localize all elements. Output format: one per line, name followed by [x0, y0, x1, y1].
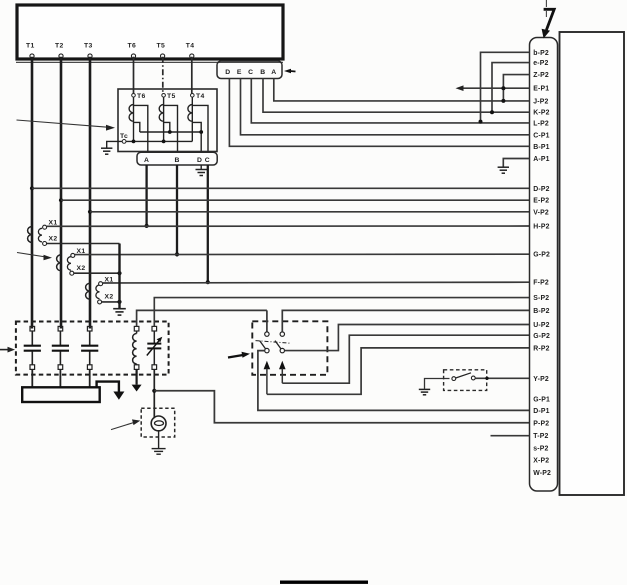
wire PT1 X2 to ground bus: [47, 243, 120, 245]
PT2 terminal X1: [71, 248, 86, 258]
wire K1b lower contact to U-P2 row: [285, 325, 530, 351]
svg-text:D-P2: D-P2: [533, 186, 550, 193]
ground at PT bus: [113, 309, 126, 315]
potential transformer PT3 secondary: [96, 285, 100, 299]
capacitor C2: [52, 326, 69, 387]
potential transformer PT2 primary: [57, 255, 61, 271]
svg-text:T5: T5: [167, 93, 176, 100]
svg-text:A: A: [271, 69, 276, 76]
wire L1 bottom to chassis arrow: [136, 369, 138, 384]
wire K1b actuator to G-P2 row: [282, 335, 529, 383]
svg-text:U-P2: U-P2: [533, 322, 550, 329]
annotation arrow at block A: [284, 69, 296, 74]
junction lamp tap: [152, 389, 156, 393]
svg-text:X2: X2: [77, 265, 86, 272]
svg-text:b-P2: b-P2: [533, 50, 549, 57]
svg-text:T6: T6: [137, 93, 146, 100]
relay actuator arrow K1a: [264, 361, 271, 395]
wire T1 main vertical: [31, 57, 34, 329]
annotation leader to PT2: [17, 253, 52, 261]
svg-text:T3: T3: [84, 43, 93, 50]
wire E terminal to C-P1 row: [241, 79, 530, 135]
wire stub T-P2: [491, 435, 530, 437]
svg-text:E: E: [237, 69, 242, 76]
potential transformer PT3 primary: [86, 283, 90, 299]
wire PT3 X2 to ground bus: [102, 300, 122, 304]
wire lamp to ground: [158, 431, 160, 449]
svg-text:T4: T4: [186, 43, 195, 50]
wire A-P1 to ground: [503, 159, 529, 167]
ground below lamp: [152, 449, 166, 455]
potential transformer PT2 secondary: [67, 257, 71, 271]
current transformer CT5: [159, 93, 177, 165]
terminal T6: [128, 43, 137, 59]
wire C terminal to L-P2 row: [251, 79, 529, 123]
svg-text:C: C: [205, 157, 210, 164]
capacitor ground bus bar: [22, 387, 100, 402]
terminal T3: [84, 43, 93, 59]
lamp dashed enclosure: [141, 408, 175, 437]
svg-text:X2: X2: [105, 294, 114, 301]
wire row to V-P2: [90, 211, 530, 213]
inductor L1: [133, 326, 139, 369]
PT1 terminal X2: [43, 236, 58, 246]
relay actuator arrow K1b: [279, 361, 286, 383]
annotation arrow at filter box: [0, 347, 15, 353]
svg-text:A-P1: A-P1: [533, 156, 550, 163]
svg-text:S-P2: S-P2: [533, 295, 549, 302]
terminal T1: [26, 43, 35, 59]
relay blade K1b: [275, 341, 281, 349]
terminal Tc: [120, 133, 128, 144]
terminal T5: [157, 43, 166, 59]
potential transformer PT1 secondary: [38, 228, 42, 242]
wire C4 top to S-P2 row: [154, 298, 529, 327]
ground below pin D: [196, 165, 208, 176]
svg-text:B: B: [175, 157, 180, 164]
wire b-P2 jumper from L-P2 row: [479, 52, 530, 123]
svg-text:B: B: [260, 69, 265, 76]
capacitor C1: [24, 326, 41, 387]
filter dashed enclosure: [16, 322, 169, 375]
svg-text:H-P2: H-P2: [533, 224, 550, 231]
junction T1 to D-P2 row: [30, 186, 34, 190]
wire row to E-P2: [61, 199, 530, 201]
wire T5 to CT5 (dash-dot): [162, 57, 164, 94]
CT assembly box: [118, 89, 217, 152]
wire T2 main vertical: [60, 57, 63, 329]
svg-text:E-P1: E-P1: [533, 86, 549, 93]
svg-text:s-P2: s-P2: [533, 446, 548, 453]
svg-text:J-P2: J-P2: [533, 98, 548, 105]
relay dashed enclosure K1: [252, 321, 327, 375]
wire lamp tap to P-P2 row: [154, 391, 529, 423]
PT ground bus vertical: [118, 244, 120, 309]
CT primary common bus Tc: [126, 140, 193, 144]
annotation leader to lamp: [111, 419, 140, 429]
svg-text:e-P2: e-P2: [533, 60, 548, 67]
svg-text:G-P1: G-P1: [533, 396, 550, 403]
chassis arrow below L1: [132, 385, 142, 392]
svg-text:B-P2: B-P2: [533, 308, 550, 315]
svg-text:B-P1: B-P1: [533, 144, 550, 151]
aux switch dashed enclosure: [444, 370, 487, 391]
svg-text:X-P2: X-P2: [533, 458, 549, 465]
svg-text:Tc: Tc: [120, 133, 128, 140]
chassis arrow at bus bar: [113, 392, 124, 400]
wire CT output A: [145, 165, 149, 228]
relay contact K1b upper: [280, 332, 284, 336]
wire e-P2 jumper from K-P2 row: [490, 63, 530, 115]
svg-text:K-P2: K-P2: [533, 110, 550, 117]
wire C4 bottom to lamp: [153, 369, 155, 418]
current transformer CT4: [188, 93, 208, 165]
svg-text:G-P2: G-P2: [533, 333, 550, 340]
wire PT3 X1 to F-P2 row: [103, 281, 530, 284]
wire D terminal to B-P1 row: [229, 79, 529, 147]
relay contact K1a lower: [265, 348, 269, 352]
main box lower rule: [16, 61, 283, 63]
wire B terminal to K-P2 row: [263, 79, 530, 113]
svg-text:D-P1: D-P1: [533, 408, 550, 415]
svg-text:V-P2: V-P2: [533, 209, 549, 216]
svg-text:C-P1: C-P1: [533, 132, 550, 139]
junction T3 to V-P2 row: [88, 210, 92, 214]
ground at A-P1: [498, 167, 509, 173]
svg-text:T5: T5: [157, 43, 166, 50]
wire PT1 X1 to H-P2 row: [47, 225, 530, 227]
svg-text:Z-P2: Z-P2: [533, 72, 549, 79]
connector pin strip P2: [530, 38, 558, 492]
terminal block DECBA: [217, 61, 282, 79]
wire aux switch to Y-P2 row: [475, 377, 529, 380]
wire Z-P2 jumper from J-P2 row: [501, 75, 529, 103]
svg-text:T6: T6: [128, 43, 137, 50]
potential transformer PT1 primary: [28, 227, 32, 243]
svg-text:T-P2: T-P2: [533, 433, 548, 440]
PT2 terminal X2: [70, 265, 86, 275]
wire PT2 X1 to G-P2 row: [75, 253, 530, 255]
wire Tc to ground: [107, 141, 123, 147]
relay linkage (dash-dot): [256, 341, 291, 344]
ground at aux switch: [419, 389, 430, 394]
svg-text:W-P2: W-P2: [533, 470, 551, 477]
indicator lamp DS1: [151, 416, 166, 431]
PT3 terminal X1: [99, 276, 114, 285]
svg-text:T4: T4: [196, 93, 205, 100]
bottom rule bar: [280, 581, 368, 584]
wire L1 top to B-P2 row: [137, 310, 267, 326]
wire B-P2 row into relay contact 1: [266, 310, 268, 332]
svg-text:F-P2: F-P2: [533, 280, 549, 287]
wire T6 to CT6: [133, 57, 135, 94]
wire A terminal to J-P2 row: [274, 79, 530, 101]
svg-text:D: D: [197, 157, 202, 164]
annotation arrow at connector top: [542, 0, 555, 38]
svg-text:R-P2: R-P2: [533, 345, 550, 352]
terminal T4: [186, 43, 195, 59]
svg-text:G-P2: G-P2: [533, 252, 550, 259]
PT3 terminal X2: [98, 294, 114, 304]
wire relay contact to B-P2 row: [282, 310, 529, 332]
connector housing rectangle: [560, 32, 625, 495]
wire ground to aux switch: [425, 379, 450, 390]
CT secondary common bus: [140, 130, 203, 134]
svg-text:L-P2: L-P2: [533, 120, 549, 127]
relay contact K1a upper: [265, 332, 269, 336]
svg-text:A: A: [144, 157, 149, 164]
terminal T2: [55, 43, 64, 59]
wire PT2 X2 to ground bus: [74, 271, 122, 275]
wire K1a lower contact to D-P1 row: [258, 351, 530, 411]
variable capacitor C4: [147, 326, 163, 369]
annotation leader to CT box: [17, 120, 116, 131]
PT1 terminal X1: [43, 220, 58, 230]
svg-text:D: D: [225, 69, 230, 76]
svg-text:P-P2: P-P2: [533, 420, 549, 427]
wire E-P1 row with arrow: [456, 85, 530, 91]
svg-text:Y-P2: Y-P2: [533, 376, 549, 383]
relay blade K1a: [260, 341, 266, 349]
wire K1a actuator to R-P2 row: [267, 348, 530, 394]
svg-text:T2: T2: [55, 43, 64, 50]
CT output block: [137, 152, 217, 165]
svg-text:C: C: [248, 69, 253, 76]
wire T4 to CT4: [191, 57, 193, 94]
aux switch S1: [452, 373, 475, 381]
wire CT output B: [175, 165, 179, 257]
capacitor C3: [81, 326, 98, 387]
ground at Tc: [101, 148, 112, 154]
svg-text:T1: T1: [26, 43, 35, 50]
wire CT output C: [206, 165, 210, 284]
current transformer CT6: [129, 93, 148, 165]
main unit box U1: [17, 5, 283, 59]
wire bus bar to chassis arrow: [97, 382, 119, 392]
svg-text:X2: X2: [49, 236, 58, 243]
annotation arrow at relay: [228, 352, 250, 358]
wire T3 main vertical: [89, 57, 92, 329]
wire row to D-P2: [32, 187, 530, 189]
junction T2 to E-P2 row: [59, 198, 63, 202]
svg-text:E-P2: E-P2: [533, 198, 549, 205]
relay contact K1b lower: [280, 348, 284, 352]
